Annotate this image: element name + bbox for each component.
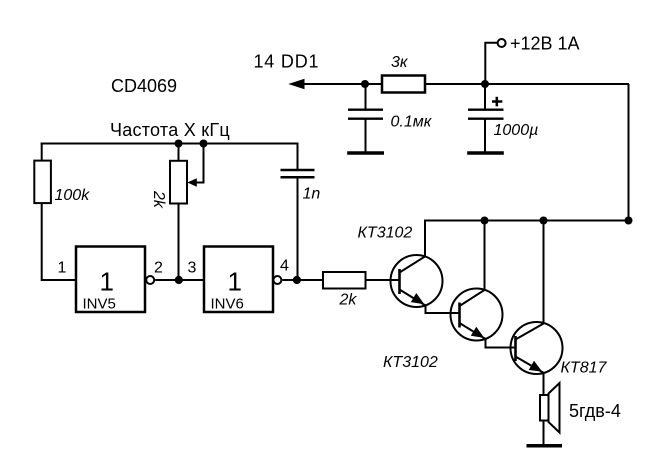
wire: pot top lead	[178, 144, 180, 162]
svg-text:3: 3	[188, 260, 197, 277]
wire: right vertical drop to collector rail	[628, 84, 630, 221]
ground: C2	[347, 151, 384, 155]
node: dot at 0.1мк tap	[361, 80, 369, 88]
node: dot at +12V feed	[481, 80, 489, 88]
polarity + of C3	[492, 97, 502, 107]
wire: Q3 emitter down to speaker	[543, 373, 545, 395]
node: rail dot Q3 collector	[540, 217, 548, 225]
wire: Q1 emitter to Q2 base	[426, 306, 460, 314]
resistor R4 3к	[382, 76, 425, 93]
wire: down to C3	[484, 84, 486, 110]
wire: Q2 emitter to Q3 base	[486, 339, 516, 348]
wire: C2 to ground	[365, 119, 367, 152]
wire: left vertical from rail to R1 top	[41, 143, 43, 162]
node: junction dot rail/pot top	[175, 140, 183, 148]
svg-text:4: 4	[280, 258, 289, 275]
capacitor C1 1n	[281, 170, 315, 177]
node: junction dot rail/wiper	[200, 140, 208, 148]
wire: speaker to ground	[543, 421, 545, 445]
svg-text:2k: 2k	[339, 292, 358, 309]
svg-text:100k: 100k	[55, 187, 91, 204]
resistor R1 100k	[34, 161, 51, 204]
svg-text:3к: 3к	[391, 54, 409, 71]
svg-text:+12В 1А: +12В 1А	[510, 34, 580, 54]
svg-text:14 DD1: 14 DD1	[254, 52, 320, 72]
capacitor C2 0.1мк	[348, 110, 383, 119]
node: rail dot Q2 collector	[481, 217, 489, 225]
svg-text:КТ3102: КТ3102	[383, 354, 438, 371]
svg-text:1: 1	[228, 267, 242, 297]
capacitor C3 1000µ	[468, 110, 504, 119]
wire: supply rail from R4 to right corner	[425, 83, 629, 85]
svg-text:1000µ: 1000µ	[494, 122, 539, 139]
inverter U1 INV5	[76, 247, 154, 313]
wire: R1 bottom down to pin 1	[42, 203, 76, 280]
wire: INV5 out to node 3	[155, 279, 178, 281]
svg-text:INV6: INV6	[211, 296, 244, 313]
svg-text:2: 2	[154, 260, 163, 277]
ground: C3	[467, 151, 504, 155]
arrowhead to DD1 pin 14	[288, 79, 304, 89]
svg-text:1: 1	[58, 260, 67, 277]
wire: C3 to ground	[484, 119, 486, 152]
transistor Q3 КТ817	[511, 220, 563, 375]
transistor Q2 КТ3102	[451, 220, 503, 341]
transistor Q1 КТ3102	[391, 220, 443, 308]
wire: oscillator top rail	[41, 143, 298, 145]
inverter U2 INV6	[204, 247, 281, 313]
svg-text:2k: 2k	[150, 190, 167, 209]
terminal: +12V input circle	[498, 39, 506, 47]
svg-text:5гдв-4: 5гдв-4	[569, 401, 621, 421]
svg-text:1n: 1n	[303, 186, 321, 203]
wire: C1 bottom down to node 4	[297, 177, 299, 280]
svg-text:КТ3102: КТ3102	[358, 225, 413, 242]
wire: rail right end down to C1	[297, 143, 299, 171]
wire: node 3 to INV6 input	[179, 279, 205, 281]
svg-text:0.1мк: 0.1мк	[391, 114, 433, 131]
wire: INV6 out to node 4	[282, 279, 297, 281]
wire: wiper connection	[196, 144, 204, 183]
resistor R3 2k	[323, 272, 366, 289]
svg-text:1: 1	[100, 267, 114, 297]
wire: R3 to Q1 base	[366, 279, 400, 281]
node 3 junction dot	[175, 276, 183, 284]
svg-text:INV5: INV5	[83, 296, 116, 313]
svg-text:CD4069: CD4069	[111, 76, 177, 96]
node 4 junction dot	[293, 276, 301, 284]
svg-text:КТ817: КТ817	[561, 360, 608, 377]
svg-text:Частота X кГц: Частота X кГц	[110, 120, 230, 140]
wire: collector rail	[425, 220, 629, 222]
potentiometer R2 2k body	[170, 161, 187, 204]
wire: supply line with arrow to pin 14	[303, 83, 382, 85]
wire: down to C2	[365, 84, 367, 111]
node: rail dot at right end	[625, 217, 633, 225]
wiper arrowhead	[187, 178, 197, 187]
wire: pot bottom down to node 3	[178, 204, 180, 281]
ground: speaker	[527, 444, 563, 448]
wire: up to supply terminal	[485, 43, 497, 84]
speaker BA1 5гдв-4	[540, 383, 560, 433]
wire: node 4 to R3	[297, 279, 323, 281]
